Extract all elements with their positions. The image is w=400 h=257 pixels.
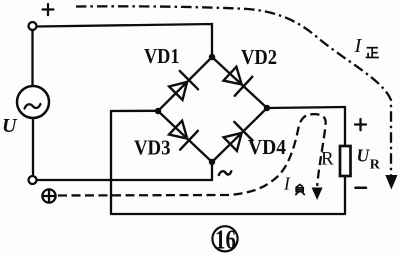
svg-text:I: I — [283, 174, 291, 194]
dashed current path I-negative with loop — [58, 114, 326, 195]
AC source U1 circle — [17, 86, 49, 118]
svg-text:VD4: VD4 — [248, 135, 286, 159]
svg-text:I: I — [354, 35, 363, 57]
svg-text:U: U — [2, 115, 18, 137]
node top (bridge) — [209, 54, 215, 60]
wire bridge edge left-top (VD1 branch) — [158, 57, 212, 111]
wire from bottom terminal to bridge bottom node — [37, 163, 212, 180]
AC source tilde symbol — [25, 104, 41, 109]
svg-text:U: U — [357, 146, 371, 166]
diode VD2 symbol — [224, 67, 253, 96]
svg-text:VD2: VD2 — [241, 45, 277, 69]
figure number 16 circled — [212, 224, 237, 254]
wire bridge edge top-right (VD2 branch) — [212, 57, 267, 108]
svg-text:VD3: VD3 — [134, 136, 171, 160]
tilde AC mark at bridge bottom node — [219, 171, 232, 175]
dash-dot current path I-positive — [76, 6, 391, 175]
resistor R body — [340, 146, 351, 176]
label zheng (positive) CJK glyph — [366, 48, 379, 58]
wire bottom rail — [111, 213, 345, 215]
wire left rail down — [110, 111, 112, 214]
wire right node to right rail — [267, 107, 345, 108]
svg-text:R: R — [370, 157, 381, 172]
plus sign output polarity — [355, 119, 366, 130]
arrowhead of I-positive — [385, 175, 397, 190]
minus sign output polarity — [356, 187, 367, 190]
wire left node to left rail — [111, 110, 158, 112]
circled-plus symbol (bottom polarity) — [42, 189, 55, 202]
plus sign top-left input polarity — [43, 4, 54, 15]
diode VD4 symbol — [224, 122, 253, 151]
wire top terminal down to source — [31, 31, 33, 87]
label UR (output voltage) — [357, 146, 381, 173]
node bottom (bridge) — [209, 159, 215, 165]
label fu (negative) CJK glyph — [295, 184, 305, 195]
wire source down to bottom terminal — [32, 118, 34, 176]
terminal (top input) — [29, 22, 37, 30]
node left (bridge) — [155, 108, 161, 114]
terminal (bottom input) — [29, 176, 37, 184]
arrowhead of I-negative — [312, 188, 323, 201]
svg-text:16: 16 — [215, 224, 236, 254]
wire bridge edge bottom-right (VD4 branch) — [212, 108, 267, 162]
wire bridge edge left-bottom (VD3 branch) — [158, 111, 212, 162]
wire from top terminal to bridge top node — [37, 24, 212, 55]
node right (bridge) — [264, 105, 270, 111]
svg-text:VD1: VD1 — [144, 44, 180, 68]
diode VD3 symbol — [169, 121, 198, 150]
wire right rail down to resistor — [344, 107, 346, 146]
wire resistor to bottom rail — [344, 176, 346, 214]
diode VD1 symbol — [169, 71, 198, 100]
svg-text:R: R — [321, 149, 334, 170]
